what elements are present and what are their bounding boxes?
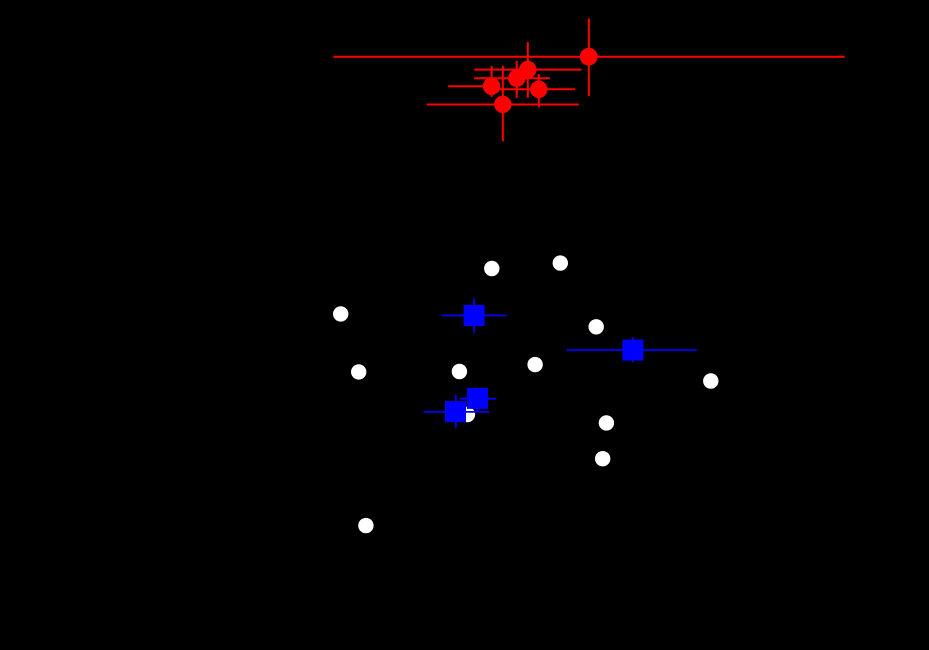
white point 12 <box>358 518 373 533</box>
blue point S1 y-error bar <box>473 299 475 333</box>
red point A x-error bar <box>474 69 581 71</box>
blue square marker S2 <box>622 340 643 361</box>
white point 7 <box>527 357 542 372</box>
red point B y-error bar <box>516 61 518 98</box>
blue point S4 y-error bar <box>455 395 457 428</box>
red point C x-error bar <box>448 85 497 87</box>
red point E y-error bar <box>502 66 504 142</box>
white point 4 <box>589 319 604 334</box>
red point D y-error bar <box>538 74 540 107</box>
red point C y-error bar <box>491 66 493 97</box>
red marker A <box>519 61 537 79</box>
red marker C <box>483 78 500 95</box>
red point D x-error bar <box>485 88 575 90</box>
white point 8 <box>703 373 718 388</box>
white point 3 <box>333 306 348 321</box>
blue point S3 y-error bar <box>477 390 479 412</box>
blue point S3 x-error bar <box>460 398 496 400</box>
red marker E <box>494 96 511 113</box>
red marker P1 <box>580 48 598 66</box>
white point 2 <box>553 255 568 270</box>
blue square marker S4 <box>445 401 466 422</box>
red point P1 y-error bar <box>588 19 590 97</box>
blue square marker S3 <box>467 388 488 409</box>
blue point S2 y-error bar <box>632 337 634 362</box>
red point A y-error bar <box>527 42 529 98</box>
blue point S2 x-error bar <box>567 349 697 351</box>
red point B x-error bar <box>474 77 550 79</box>
red marker B <box>508 70 525 87</box>
white point 1 <box>484 261 499 276</box>
blue square marker S1 <box>464 305 485 326</box>
red marker D <box>530 81 547 98</box>
red point E x-error bar <box>427 104 579 106</box>
red point P1 x-error bar <box>333 56 844 58</box>
white point 5 <box>351 364 366 379</box>
white point 11 <box>595 451 610 466</box>
blue point S1 x-error bar <box>442 315 507 317</box>
white point 9 (partly hidden behind blue squares) <box>460 407 475 422</box>
white point 10 <box>599 415 614 430</box>
white point 6 <box>452 364 467 379</box>
blue point S4 x-error bar <box>424 411 490 413</box>
